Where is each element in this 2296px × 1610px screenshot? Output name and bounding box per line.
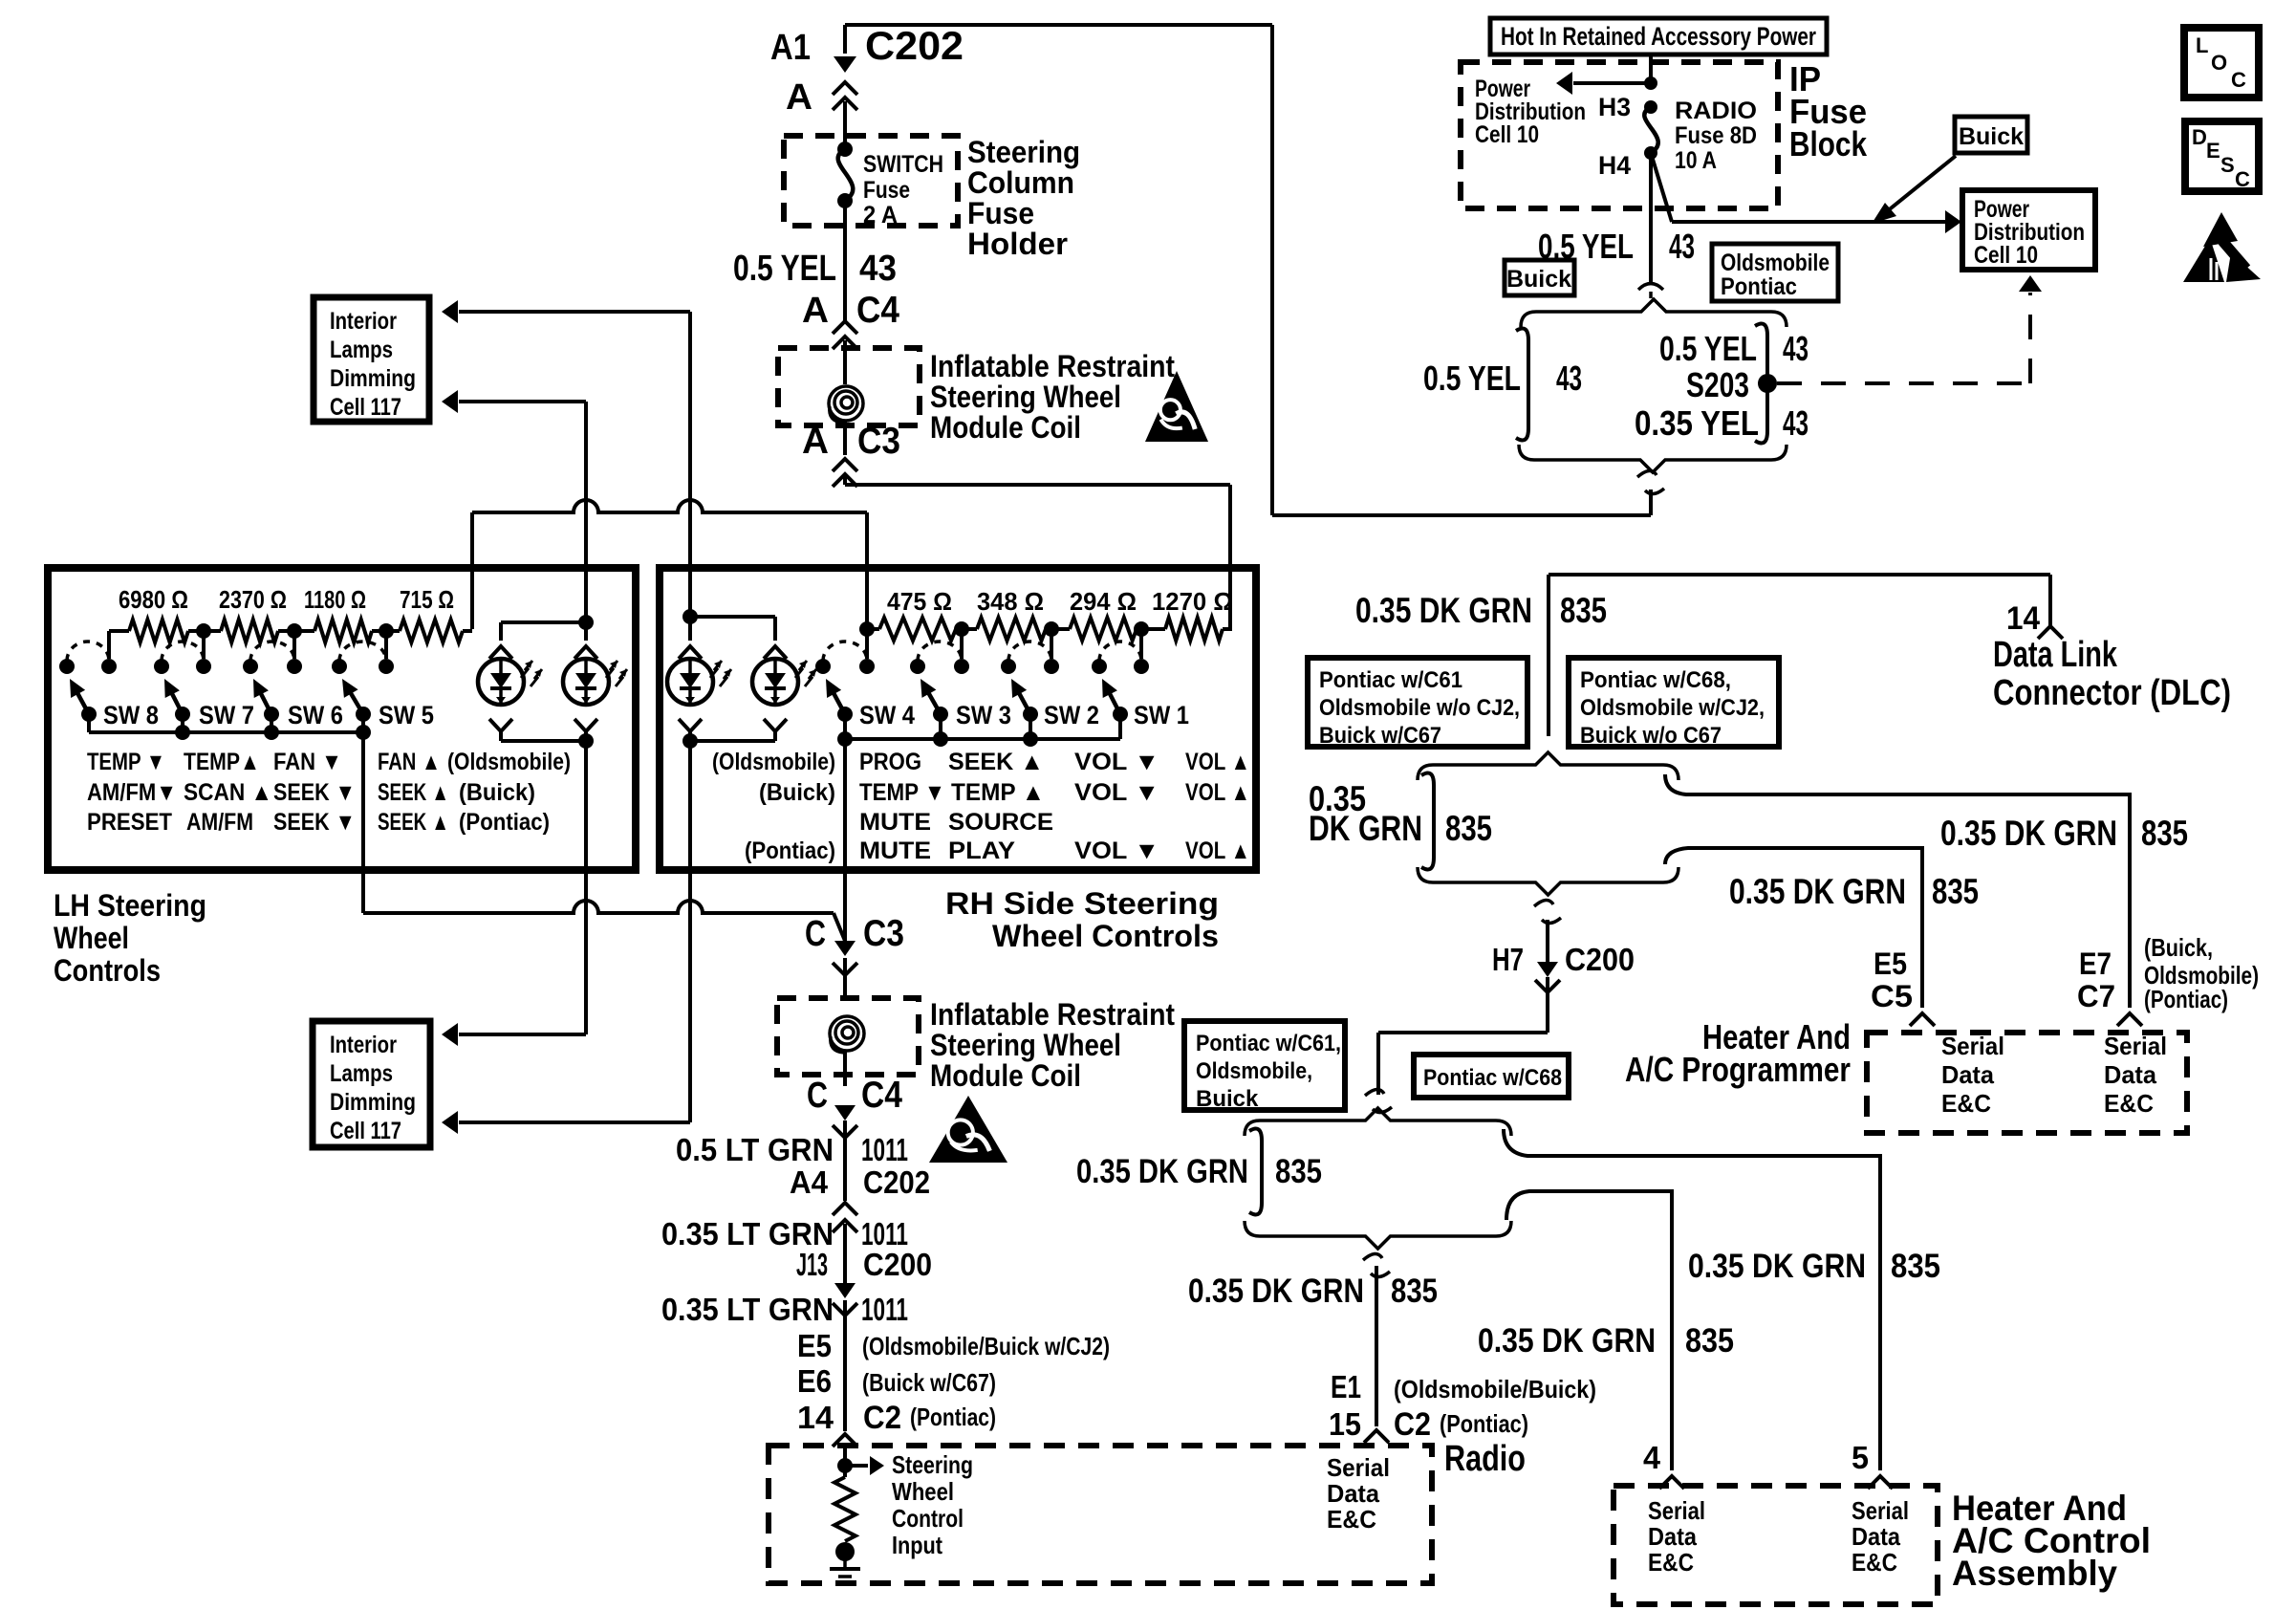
svg-text:(Pontiac): (Pontiac) bbox=[1440, 1409, 1528, 1438]
svg-text:Holder: Holder bbox=[967, 227, 1068, 261]
svg-text:O: O bbox=[2211, 51, 2227, 75]
brace splice options upper bbox=[1521, 299, 1787, 327]
svg-text:SEEK ▲: SEEK ▲ bbox=[378, 809, 449, 836]
svg-text:E&C: E&C bbox=[2104, 1089, 2154, 1118]
svg-text:E&C: E&C bbox=[1648, 1548, 1694, 1577]
svg-text:SEEK ▼: SEEK ▼ bbox=[273, 779, 356, 806]
wire 835 0.35 DK GRN to Data Link Connector bbox=[1549, 573, 2050, 577]
svg-text:Fuse 8D: Fuse 8D bbox=[1675, 122, 1757, 149]
svg-text:A/C Programmer: A/C Programmer bbox=[1625, 1050, 1851, 1089]
wire 835 0.35 DK GRN option left (radio feed) bbox=[1249, 1129, 1262, 1215]
svg-text:835: 835 bbox=[1445, 809, 1492, 848]
svg-text:(Pontiac): (Pontiac) bbox=[745, 838, 835, 864]
box Pontiac w/C61 Oldsmobile Buick (lower) bbox=[1184, 1021, 1345, 1110]
svg-text:H4: H4 bbox=[1598, 151, 1631, 180]
brace radio feed options lower bbox=[1245, 1221, 1511, 1249]
svg-text:E1: E1 bbox=[1331, 1369, 1361, 1404]
svg-text:835: 835 bbox=[1275, 1153, 1322, 1190]
svg-text:Module Coil: Module Coil bbox=[930, 1058, 1081, 1093]
box LH Steering Wheel Controls bbox=[48, 568, 636, 870]
SIR warning triangle (lower) bbox=[929, 1096, 1007, 1163]
svg-text:14: 14 bbox=[2006, 600, 2040, 637]
svg-text:Buick w/C67: Buick w/C67 bbox=[1319, 723, 1441, 749]
svg-text:D: D bbox=[2192, 125, 2207, 149]
wire 835 0.35 DK GRN option right to E7 C7 bbox=[1665, 774, 2130, 1008]
svg-text:SW 8: SW 8 bbox=[103, 701, 159, 729]
box Radio dashed bbox=[769, 1446, 1432, 1583]
svg-text:MUTE: MUTE bbox=[859, 838, 931, 864]
svg-text:(Oldsmobile/Buick): (Oldsmobile/Buick) bbox=[1394, 1375, 1596, 1403]
box Pontiac w/C68 (lower) bbox=[1414, 1055, 1569, 1098]
svg-text:Cell 10: Cell 10 bbox=[1475, 121, 1539, 148]
svg-text:14: 14 bbox=[797, 1400, 834, 1435]
svg-text:Serial: Serial bbox=[2104, 1032, 2167, 1060]
switch SW 6 bbox=[243, 659, 258, 674]
op coil Inflatable Restraint Steering Wheel Module Coil (upper) bbox=[778, 348, 920, 425]
wire RH LED cathode bus bbox=[690, 739, 775, 743]
svg-text:Assembly: Assembly bbox=[1952, 1554, 2117, 1593]
dashed wire S203 to Power Distribution Cell 10 bbox=[1777, 381, 2030, 385]
svg-text:43: 43 bbox=[1669, 227, 1695, 266]
svg-text:SWITCH: SWITCH bbox=[863, 151, 943, 178]
wire from H4 to Power Distribution Cell 10 (right) bbox=[1651, 153, 1672, 222]
IP fuse block dashed box bbox=[1461, 62, 1778, 208]
svg-text:Fuse: Fuse bbox=[863, 177, 910, 204]
svg-text:0.35 YEL: 0.35 YEL bbox=[1635, 403, 1759, 443]
svg-text:Serial: Serial bbox=[1852, 1496, 1909, 1525]
svg-text:C: C bbox=[2231, 68, 2246, 92]
svg-text:Interior: Interior bbox=[330, 308, 397, 335]
fuse SWITCH Fuse 2 A (steering column fuse holder) bbox=[784, 136, 958, 226]
box Buick (upper right) bbox=[1955, 117, 2027, 153]
svg-text:SW 4: SW 4 bbox=[859, 701, 915, 729]
svg-text:SCAN ▲: SCAN ▲ bbox=[184, 779, 272, 806]
arrow to power distribution (left) bbox=[1573, 81, 1651, 85]
svg-text:SOURCE: SOURCE bbox=[948, 809, 1053, 836]
svg-text:835: 835 bbox=[1932, 872, 1979, 911]
brace serial data options B (lower) bbox=[1418, 867, 1679, 895]
svg-text:VOL ▲: VOL ▲ bbox=[1185, 749, 1250, 775]
svg-text:S203: S203 bbox=[1686, 365, 1749, 404]
box RH Side Steering Wheel Controls bbox=[660, 568, 1256, 870]
svg-text:H3: H3 bbox=[1598, 93, 1631, 121]
svg-text:H7: H7 bbox=[1492, 942, 1524, 977]
svg-text:Control: Control bbox=[892, 1504, 964, 1533]
svg-text:6980 Ω: 6980 Ω bbox=[119, 585, 188, 614]
switch SW 8 bbox=[59, 659, 75, 674]
svg-text:FAN ▼: FAN ▼ bbox=[273, 749, 342, 775]
svg-text:C: C bbox=[807, 1076, 828, 1116]
svg-text:715 Ω: 715 Ω bbox=[400, 585, 454, 614]
svg-text:C2: C2 bbox=[1394, 1406, 1431, 1443]
svg-text:Data: Data bbox=[2104, 1060, 2157, 1089]
svg-text:A4: A4 bbox=[790, 1164, 829, 1200]
svg-text:Data: Data bbox=[1327, 1479, 1380, 1508]
wire LH LED cathode bus bbox=[501, 739, 586, 743]
box Interior Lamps Dimming Cell 117 (upper) bbox=[314, 297, 429, 422]
svg-text:835: 835 bbox=[1560, 591, 1607, 630]
connector C2 terminal E1 15 (radio serial data) bbox=[1375, 1266, 1378, 1426]
svg-text:E: E bbox=[2206, 139, 2220, 163]
switch SW 5 bbox=[332, 659, 347, 674]
svg-text:Pontiac: Pontiac bbox=[1721, 273, 1797, 300]
wire to heater AC control pin 5 bbox=[1504, 1129, 1880, 1470]
svg-text:5: 5 bbox=[1852, 1440, 1869, 1475]
svg-text:Cell 10: Cell 10 bbox=[1974, 242, 2038, 269]
svg-text:Pontiac w/C61: Pontiac w/C61 bbox=[1319, 667, 1462, 693]
svg-text:Data Link: Data Link bbox=[1993, 635, 2118, 675]
svg-text:FAN ▲: FAN ▲ bbox=[378, 749, 441, 775]
svg-text:0.35 DK GRN: 0.35 DK GRN bbox=[1688, 1248, 1866, 1285]
svg-text:E&C: E&C bbox=[1941, 1089, 1991, 1118]
box Hot In Retained Accessory Power bbox=[1490, 18, 1827, 54]
svg-text:0.5 YEL: 0.5 YEL bbox=[1423, 359, 1521, 398]
svg-text:835: 835 bbox=[1891, 1248, 1940, 1285]
svg-text:Inflatable Restraint: Inflatable Restraint bbox=[930, 997, 1175, 1032]
svg-text:TEMP ▲: TEMP ▲ bbox=[951, 779, 1045, 806]
svg-text:Serial: Serial bbox=[1941, 1032, 2004, 1060]
box Buick (splice options) bbox=[1505, 260, 1574, 295]
svg-text:4: 4 bbox=[1643, 1440, 1661, 1475]
svg-text:Steering: Steering bbox=[967, 135, 1080, 169]
svg-text:348 Ω: 348 Ω bbox=[977, 587, 1044, 616]
svg-text:Data: Data bbox=[1941, 1060, 1995, 1089]
svg-text:Wheel Controls: Wheel Controls bbox=[992, 919, 1219, 953]
svg-text:Oldsmobile: Oldsmobile bbox=[1721, 250, 1830, 276]
svg-text:C200: C200 bbox=[1565, 942, 1635, 977]
svg-text:475 Ω: 475 Ω bbox=[887, 587, 952, 616]
svg-text:C3: C3 bbox=[857, 421, 900, 462]
svg-text:J13: J13 bbox=[796, 1247, 828, 1282]
svg-text:E5: E5 bbox=[797, 1328, 832, 1363]
svg-text:(Pontiac): (Pontiac) bbox=[459, 809, 550, 836]
svg-text:C4: C4 bbox=[856, 290, 899, 331]
svg-text:(Oldsmobile): (Oldsmobile) bbox=[712, 749, 835, 775]
svg-text:C202: C202 bbox=[865, 23, 964, 68]
svg-text:Input: Input bbox=[892, 1531, 942, 1559]
svg-text:E7: E7 bbox=[2079, 946, 2112, 981]
svg-text:SW 6: SW 6 bbox=[288, 701, 343, 729]
svg-text:C7: C7 bbox=[2077, 979, 2115, 1013]
svg-text:SEEK ▲: SEEK ▲ bbox=[378, 779, 449, 806]
svg-text:0.5 YEL: 0.5 YEL bbox=[733, 249, 836, 289]
wire LH switch common bus bbox=[89, 730, 363, 734]
svg-text:LH Steering: LH Steering bbox=[54, 888, 206, 923]
svg-text:Serial: Serial bbox=[1648, 1496, 1705, 1525]
svg-text:VOL ▲: VOL ▲ bbox=[1185, 779, 1250, 806]
svg-text:A: A bbox=[786, 77, 812, 118]
wire 43 0.5 YEL below fuse H4 bbox=[1649, 153, 1653, 283]
SIR warning triangle (upper) bbox=[1145, 371, 1208, 442]
svg-text:DK GRN: DK GRN bbox=[1309, 809, 1422, 848]
wire W1 fuse feed loop from IP fuse block to steering column bbox=[845, 23, 1272, 27]
svg-text:Wheel: Wheel bbox=[54, 921, 129, 955]
svg-text:Buick: Buick bbox=[1506, 266, 1571, 293]
svg-text:Data: Data bbox=[1648, 1522, 1697, 1551]
svg-text:SEEK ▼: SEEK ▼ bbox=[273, 809, 356, 836]
svg-text:(Oldsmobile): (Oldsmobile) bbox=[447, 749, 571, 775]
brace serial data options A (upper) bbox=[1418, 752, 1679, 780]
svg-text:Wheel: Wheel bbox=[892, 1477, 954, 1506]
svg-text:(Buick): (Buick) bbox=[759, 779, 835, 806]
switch SW 7 bbox=[154, 659, 169, 674]
svg-text:A: A bbox=[802, 422, 829, 462]
svg-text:(Buick w/C67): (Buick w/C67) bbox=[862, 1368, 996, 1397]
wire resistor chain link LH 715 to RH 475 bbox=[472, 500, 867, 512]
wire 43 0.5 YEL Buick option (left) bbox=[1516, 329, 1528, 441]
svg-text:MUTE: MUTE bbox=[859, 809, 931, 836]
svg-text:SW 7: SW 7 bbox=[199, 701, 254, 729]
svg-text:(Oldsmobile/Buick w/CJ2): (Oldsmobile/Buick w/CJ2) bbox=[862, 1332, 1110, 1360]
svg-text:1011: 1011 bbox=[861, 1132, 908, 1167]
wire C200 to lower brace bbox=[1378, 1031, 1548, 1034]
svg-text:TEMP▲: TEMP▲ bbox=[184, 749, 260, 775]
svg-text:Pontiac w/C61,: Pontiac w/C61, bbox=[1196, 1031, 1341, 1056]
svg-text:294 Ω: 294 Ω bbox=[1070, 587, 1137, 616]
svg-text:Column: Column bbox=[967, 165, 1074, 200]
svg-text:E6: E6 bbox=[797, 1363, 832, 1399]
svg-text:0.5 LT GRN: 0.5 LT GRN bbox=[676, 1132, 834, 1167]
svg-text:2 A: 2 A bbox=[863, 202, 898, 228]
switch SW 4 bbox=[815, 659, 831, 674]
svg-text:A1: A1 bbox=[770, 28, 811, 68]
svg-text:RADIO: RADIO bbox=[1675, 98, 1757, 124]
svg-text:0.35 DK GRN: 0.35 DK GRN bbox=[1188, 1273, 1364, 1310]
svg-text:SW 3: SW 3 bbox=[956, 701, 1011, 729]
svg-text:C: C bbox=[2235, 167, 2250, 191]
svg-text:835: 835 bbox=[1391, 1273, 1438, 1310]
svg-text:Oldsmobile,: Oldsmobile, bbox=[1196, 1058, 1312, 1084]
svg-text:Lamps: Lamps bbox=[330, 1060, 393, 1087]
svg-text:C202: C202 bbox=[863, 1164, 930, 1200]
svg-text:0.35 DK GRN: 0.35 DK GRN bbox=[1076, 1153, 1248, 1190]
wire from heater AC control pin 4 bbox=[1506, 1191, 1672, 1470]
symbol ESD warning bbox=[2203, 212, 2238, 247]
svg-text:1011: 1011 bbox=[861, 1292, 908, 1327]
svg-text:C4: C4 bbox=[861, 1075, 902, 1116]
svg-text:(Pontiac): (Pontiac) bbox=[910, 1403, 996, 1431]
wire 835 0.35 DK GRN option left bbox=[1421, 773, 1434, 870]
box Oldsmobile Pontiac bbox=[1712, 244, 1838, 301]
svg-text:Steering Wheel: Steering Wheel bbox=[930, 1028, 1121, 1062]
svg-text:C200: C200 bbox=[863, 1247, 932, 1282]
svg-text:0.5 YEL: 0.5 YEL bbox=[1659, 329, 1757, 368]
svg-text:0.35 DK GRN: 0.35 DK GRN bbox=[1355, 591, 1532, 630]
svg-text:(Buick,: (Buick, bbox=[2144, 933, 2213, 962]
svg-text:AM/FM: AM/FM bbox=[186, 809, 253, 836]
svg-text:Interior: Interior bbox=[330, 1032, 397, 1058]
box Power Distribution Cell 10 (right) bbox=[1962, 190, 2095, 270]
brace splice options lower bbox=[1519, 445, 1787, 472]
symbol DESC box bbox=[2185, 121, 2259, 191]
svg-text:E5: E5 bbox=[1874, 946, 1907, 981]
svg-text:0.35 LT GRN: 0.35 LT GRN bbox=[661, 1292, 834, 1327]
svg-text:Data: Data bbox=[1852, 1522, 1900, 1551]
svg-text:SW 2: SW 2 bbox=[1044, 701, 1099, 729]
svg-text:43: 43 bbox=[859, 249, 897, 289]
svg-text:C: C bbox=[805, 914, 826, 954]
svg-text:TEMP ▼: TEMP ▼ bbox=[87, 749, 165, 775]
svg-text:Lamps: Lamps bbox=[330, 337, 393, 363]
svg-text:C5: C5 bbox=[1871, 979, 1913, 1013]
svg-text:0.35 DK GRN: 0.35 DK GRN bbox=[1729, 872, 1906, 911]
connector C200 terminal H7 bbox=[1546, 920, 1549, 962]
svg-text:Steering Wheel: Steering Wheel bbox=[930, 380, 1121, 414]
svg-text:AM/FM▼: AM/FM▼ bbox=[87, 779, 177, 806]
box Pontiac w/C61 Oldsmobile w/o CJ2 Buick w/C67 bbox=[1308, 658, 1527, 747]
LED RH illumination 2 bbox=[690, 615, 775, 619]
wire W2 from coil C3 to RH controls 1270 ohm bbox=[843, 476, 847, 485]
coil Inflatable Restraint Steering Wheel Module Coil (lower) bbox=[777, 998, 919, 1075]
svg-text:1180 Ω: 1180 Ω bbox=[304, 585, 366, 614]
svg-text:C3: C3 bbox=[863, 913, 904, 954]
svg-text:VOL ▼: VOL ▼ bbox=[1074, 749, 1159, 775]
svg-text:Serial: Serial bbox=[1327, 1453, 1390, 1482]
svg-text:1270 Ω: 1270 Ω bbox=[1152, 587, 1233, 616]
wire LH LED feed to interior lamps (lower arrow) bbox=[459, 400, 586, 403]
switch SW 2 bbox=[1001, 659, 1016, 674]
svg-text:2370 Ω: 2370 Ω bbox=[219, 585, 287, 614]
svg-text:43: 43 bbox=[1556, 359, 1582, 398]
svg-text:Buick: Buick bbox=[1959, 123, 2024, 150]
LED RH illumination 1 bbox=[682, 609, 698, 624]
svg-text:L: L bbox=[2196, 33, 2208, 57]
svg-text:SW 5: SW 5 bbox=[379, 701, 434, 729]
brace radio feed options upper bbox=[1245, 1108, 1511, 1136]
svg-text:Inflatable Restraint: Inflatable Restraint bbox=[930, 349, 1175, 383]
box Interior Lamps Dimming Cell 117 (lower) bbox=[313, 1021, 430, 1147]
svg-text:Dimming: Dimming bbox=[330, 1089, 416, 1116]
svg-text:Hot In Retained Accessory Powe: Hot In Retained Accessory Power bbox=[1501, 22, 1816, 51]
box Heater And A/C Programmer dashed bbox=[1867, 1033, 2187, 1133]
wire LH common to connector C3 junction bbox=[363, 901, 834, 913]
wire RH LED return to interior lamps (lower arrow lower box) bbox=[459, 1120, 690, 1124]
svg-text:TEMP ▼: TEMP ▼ bbox=[859, 779, 945, 806]
steering wheel control input (inside radio) bbox=[843, 1446, 847, 1477]
svg-text:(Buick): (Buick) bbox=[459, 779, 535, 806]
symbol LOC box bbox=[2184, 28, 2259, 98]
switch SW 1 bbox=[1092, 659, 1107, 674]
wire RH LED feed to interior lamps (upper arrow) bbox=[459, 310, 690, 314]
svg-text:PRESET: PRESET bbox=[87, 809, 172, 836]
svg-text:PROG: PROG bbox=[859, 749, 921, 775]
switch SW 3 bbox=[910, 659, 925, 674]
svg-text:835: 835 bbox=[1685, 1322, 1734, 1360]
svg-text:VOL ▼: VOL ▼ bbox=[1074, 779, 1159, 806]
svg-text:Connector (DLC): Connector (DLC) bbox=[1993, 673, 2231, 713]
svg-text:15: 15 bbox=[1329, 1406, 1361, 1442]
svg-text:Controls: Controls bbox=[54, 953, 161, 988]
svg-text:835: 835 bbox=[2141, 814, 2188, 853]
connector C202 terminal A1 (top) bbox=[843, 25, 847, 54]
svg-text:Oldsmobile w/o CJ2,: Oldsmobile w/o CJ2, bbox=[1319, 695, 1520, 721]
svg-text:Dimming: Dimming bbox=[330, 365, 416, 392]
svg-text:(Pontiac): (Pontiac) bbox=[2144, 985, 2228, 1013]
svg-text:VOL ▼: VOL ▼ bbox=[1074, 838, 1159, 864]
svg-text:Buick w/o C67: Buick w/o C67 bbox=[1580, 723, 1722, 749]
wire from E5 C5 return to brace B bbox=[1665, 848, 1922, 1008]
svg-text:0.35 DK GRN: 0.35 DK GRN bbox=[1478, 1322, 1656, 1360]
svg-text:Radio: Radio bbox=[1444, 1439, 1526, 1479]
svg-text:Cell 117: Cell 117 bbox=[330, 1118, 401, 1144]
svg-text:Pontiac w/C68: Pontiac w/C68 bbox=[1423, 1065, 1562, 1091]
svg-text:PLAY: PLAY bbox=[948, 838, 1015, 864]
wire LH LED return to interior lamps (upper arrow lower box) bbox=[459, 1033, 586, 1036]
splice S203 wire options (right) bbox=[1755, 324, 1767, 444]
svg-text:10 A: 10 A bbox=[1675, 147, 1717, 174]
svg-text:Buick: Buick bbox=[1196, 1086, 1259, 1112]
svg-text:0.35 DK GRN: 0.35 DK GRN bbox=[1940, 814, 2117, 853]
wire RH switch common bus bbox=[845, 737, 1120, 741]
LED LH illumination 2 bbox=[578, 615, 594, 630]
svg-text:Cell 117: Cell 117 bbox=[330, 394, 401, 421]
svg-text:C2: C2 bbox=[863, 1400, 901, 1436]
svg-text:VOL ▲: VOL ▲ bbox=[1185, 838, 1250, 864]
box Heater And A/C Control Assembly dashed bbox=[1614, 1486, 1938, 1604]
svg-text:43: 43 bbox=[1783, 403, 1809, 443]
svg-text:Fuse: Fuse bbox=[967, 196, 1034, 230]
svg-text:Block: Block bbox=[1789, 124, 1868, 163]
svg-text:A: A bbox=[802, 291, 829, 331]
svg-text:43: 43 bbox=[1783, 329, 1809, 368]
svg-text:RH Side Steering: RH Side Steering bbox=[945, 886, 1219, 921]
svg-text:Steering: Steering bbox=[892, 1450, 973, 1479]
svg-text:SEEK ▲: SEEK ▲ bbox=[948, 749, 1044, 775]
svg-text:Oldsmobile w/CJ2,: Oldsmobile w/CJ2, bbox=[1580, 695, 1765, 721]
LED LH illumination 1 bbox=[499, 622, 503, 641]
box Pontiac w/C68 Oldsmobile w/CJ2 Buick w/o C67 bbox=[1569, 658, 1779, 747]
svg-text:SW 1: SW 1 bbox=[1134, 701, 1189, 729]
svg-text:Pontiac w/C68,: Pontiac w/C68, bbox=[1580, 667, 1731, 693]
svg-text:E&C: E&C bbox=[1852, 1548, 1897, 1577]
svg-text:S: S bbox=[2220, 153, 2235, 177]
svg-text:E&C: E&C bbox=[1327, 1505, 1376, 1534]
svg-text:Module Coil: Module Coil bbox=[930, 410, 1081, 445]
